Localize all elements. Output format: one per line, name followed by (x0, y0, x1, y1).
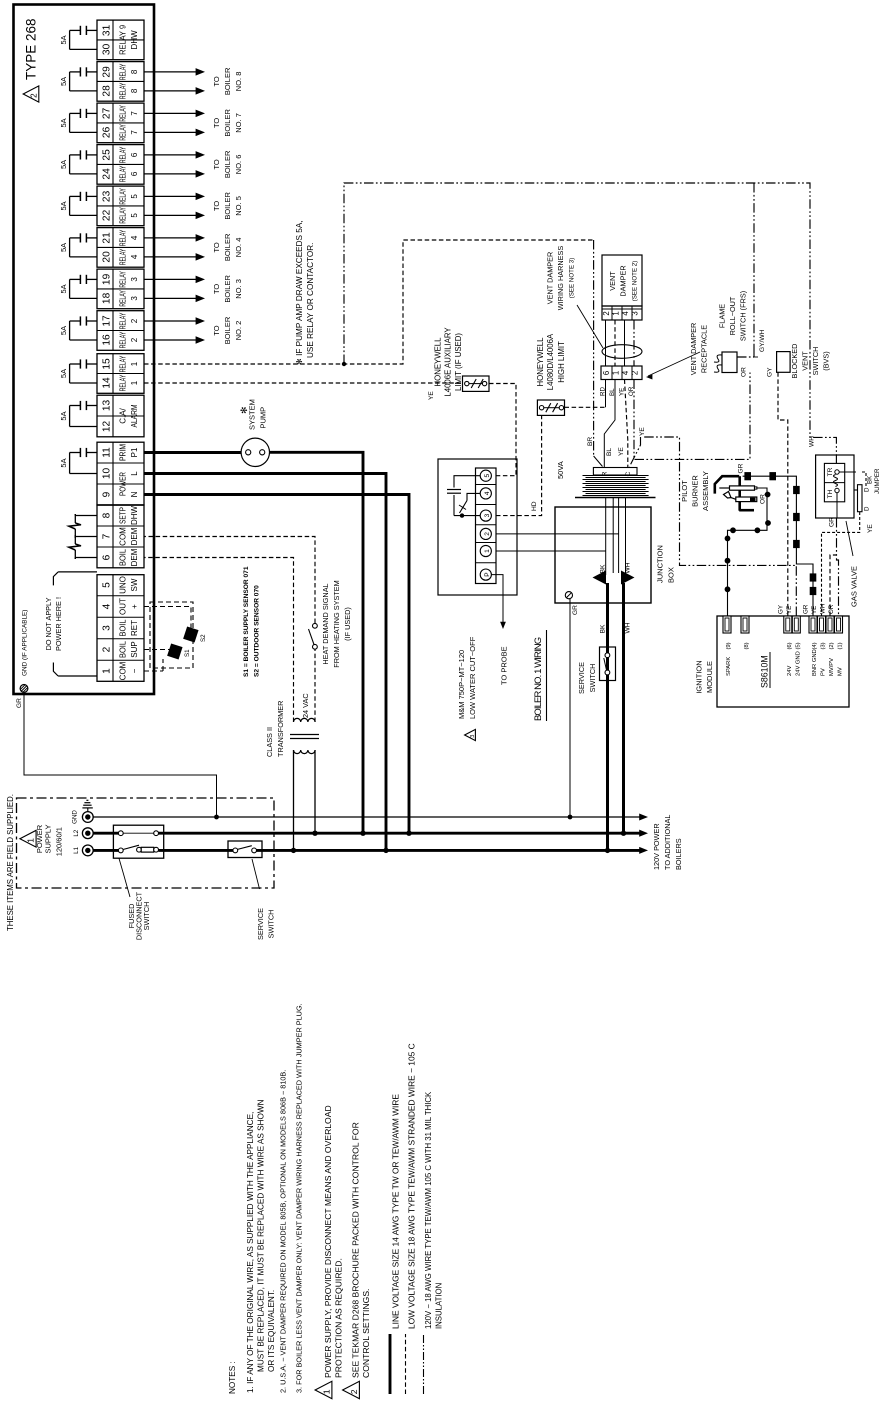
svg-text:GY: GY (767, 367, 774, 377)
svg-text:27: 27 (102, 107, 113, 119)
svg-text:RELAY: RELAY (118, 374, 128, 391)
wire dashed secondary to terminal 6 (144, 558, 294, 723)
svg-text:14: 14 (102, 377, 113, 389)
arrows 120V power to additional boilers (639, 813, 648, 820)
svg-text:R: R (602, 471, 609, 476)
wires BK WH channels from 50VA transformer (605, 498, 607, 576)
svg-text:L: L (130, 471, 139, 476)
svg-text:SUP: SUP (130, 641, 139, 657)
svg-text:TYPE 268: TYPE 268 (24, 18, 39, 80)
terminal strip (tekmar 268) (97, 575, 144, 682)
svg-text:12: 12 (102, 421, 113, 433)
svg-text:1: 1 (612, 371, 621, 375)
svg-text:OR ITS EQUIVALENT.: OR ITS EQUIVALENT. (267, 1290, 276, 1372)
wire OR from receptacle 2 to FRS (634, 373, 750, 460)
svg-text:BOILER: BOILER (223, 192, 232, 220)
svg-text:11: 11 (102, 447, 113, 458)
svg-text:YE: YE (867, 524, 874, 533)
igniter rod (719, 487, 729, 489)
svg-text:7: 7 (102, 533, 113, 539)
wire dashed BVS to ignition module GY (778, 372, 788, 616)
svg-text:(1): (1) (838, 642, 844, 649)
sensors S1 S2 dashed box (150, 602, 193, 668)
fuse 5A terminals 28/29 (87, 71, 97, 73)
svg-text:120/60/1: 120/60/1 (55, 827, 64, 856)
svg-text:RELAY: RELAY (118, 290, 128, 307)
svg-text:TRANSFORMER: TRANSFORMER (276, 701, 285, 757)
wire arrows to boiler no. 8 (144, 90, 197, 92)
heat demand switch (313, 623, 318, 628)
svg-text:28: 28 (102, 85, 113, 97)
svg-text:BLOCKED: BLOCKED (790, 344, 799, 379)
wire YE dashed from receptacle 4 into C (625, 380, 628, 468)
wire dashed relay 1 terminal 15 chain (144, 240, 594, 364)
svg-text:RELAY: RELAY (118, 63, 128, 80)
svg-text:RELAY 9: RELAY 9 (118, 25, 128, 55)
svg-text:(6): (6) (787, 642, 793, 649)
svg-text:(8): (8) (744, 642, 750, 649)
svg-text:18: 18 (102, 292, 113, 304)
svg-text:2: 2 (602, 311, 611, 315)
svg-text:20: 20 (102, 251, 113, 263)
svg-text:RET: RET (130, 620, 139, 636)
svg-text:SWITCH: SWITCH (588, 664, 597, 693)
svg-text:SWITCH: SWITCH (811, 347, 820, 376)
vent damper receptacle terminals 6 1 4 2 (601, 366, 642, 380)
wire FRS right to GY/WH riser (737, 356, 754, 358)
bent electrode (724, 492, 732, 499)
service switch at supply (228, 841, 262, 858)
svg-text:7: 7 (130, 111, 139, 116)
svg-text:BNR GND: BNR GND (812, 649, 818, 676)
svg-text:6: 6 (102, 554, 113, 560)
svg-text:YE: YE (786, 606, 793, 614)
svg-text:(2): (2) (829, 642, 835, 649)
svg-text:4: 4 (130, 254, 139, 259)
svg-text:24: 24 (102, 168, 113, 180)
wire arrows to boiler no. 7 (144, 131, 197, 133)
svg-text:OR: OR (760, 494, 767, 504)
svg-text:COM: COM (119, 527, 128, 546)
fuse 5A terminals 26/27 (87, 112, 97, 114)
svg-text:DHW: DHW (130, 30, 139, 50)
svg-text:5A: 5A (59, 369, 68, 378)
svg-text:3: 3 (130, 296, 139, 301)
wire arrows to boiler no. 5 (144, 214, 197, 216)
svg-text:WH: WH (625, 622, 632, 633)
svg-text:VENT: VENT (801, 351, 810, 371)
labels M&M 750P-MT-120 low water cut-off (465, 729, 476, 740)
wire dashed high limit to receptacle RD lane (565, 406, 606, 408)
svg-text:24 VAC: 24 VAC (301, 693, 310, 718)
svg-text:2: 2 (484, 532, 491, 536)
wire GR from junction box to gnd bus (569, 599, 571, 817)
svg-text:21: 21 (102, 232, 113, 244)
svg-text:(4): (4) (812, 642, 818, 649)
svg-text:GR: GR (572, 605, 579, 615)
svg-text:(9): (9) (726, 642, 732, 649)
wire arrows to boiler no. 3 (144, 297, 197, 299)
svg-text:S8610M: S8610M (760, 655, 770, 688)
svg-text:RELAY: RELAY (118, 188, 128, 205)
svg-text:YE: YE (811, 606, 818, 614)
svg-text:1: 1 (130, 380, 139, 385)
ignition module S8610M (717, 616, 849, 707)
svg-text:OUT: OUT (119, 598, 128, 615)
svg-text:MV/PV: MV/PV (829, 658, 835, 676)
svg-text:DO NOT APPLY: DO NOT APPLY (44, 597, 53, 650)
svg-text:PUMP: PUMP (259, 407, 268, 429)
svg-text:(IF USED): (IF USED) (343, 607, 352, 641)
svg-text:RELAY: RELAY (118, 229, 128, 246)
vent damper plug terminals 2 1 4 3 (602, 306, 642, 320)
svg-text:C: C (625, 471, 632, 476)
svg-text:BK: BK (600, 624, 607, 633)
svg-text:WH: WH (820, 604, 827, 614)
wire arrows to boiler no. 2 (144, 339, 197, 341)
svg-text:GND (IF APPLICABLE): GND (IF APPLICABLE) (22, 610, 29, 676)
fuse 5A terminals 18/19 (87, 278, 97, 280)
wire OR spark from module 9 to pilot rod with beads (728, 488, 768, 616)
svg-text:P: P (484, 572, 491, 577)
svg-text:26: 26 (102, 126, 113, 138)
svg-text:HONEYWELL: HONEYWELL (434, 337, 443, 387)
svg-text:FROM HEATING SYSTEM: FROM HEATING SYSTEM (332, 580, 341, 667)
fused disconnect switch (113, 825, 163, 858)
svg-text:UNO: UNO (119, 576, 128, 594)
legend line voltage wire (389, 1334, 392, 1394)
wire N from terminal 9 to L2 bus (144, 495, 409, 834)
legend low voltage wire (405, 1334, 407, 1394)
svg-text:25: 25 (102, 149, 113, 161)
svg-text:VENT DAMPER: VENT DAMPER (546, 252, 555, 305)
svg-text:WH: WH (809, 436, 816, 447)
svg-text:BOILER: BOILER (223, 316, 232, 344)
svg-text:BOIL: BOIL (119, 640, 128, 658)
svg-text:BOIL: BOIL (119, 548, 128, 566)
svg-text:5A: 5A (59, 77, 68, 86)
svg-text:TO: TO (212, 201, 221, 211)
svg-text:RELAY: RELAY (118, 331, 128, 348)
svg-text:NO. 8: NO. 8 (234, 72, 243, 92)
svg-text:16: 16 (102, 334, 113, 346)
wire RD from receptacle 6 to high limit junction (605, 380, 607, 408)
svg-text:USE RELAY OR CONTACTOR.: USE RELAY OR CONTACTOR. (306, 243, 315, 358)
svg-text:WIRING HARNESS: WIRING HARNESS (556, 246, 565, 311)
svg-text:5: 5 (484, 474, 491, 478)
label TYPE 268 with warning triangle 2 (23, 86, 39, 102)
field wire arrow BK (593, 571, 607, 585)
svg-text:TO: TO (212, 242, 221, 252)
sensor rod with black tip (736, 497, 757, 502)
wire P1 from pump to neutral bus (270, 452, 364, 833)
svg-text:8: 8 (130, 69, 139, 74)
svg-text:PILOT: PILOT (680, 480, 689, 502)
fuse 5A terminals 20/21 (87, 237, 97, 239)
svg-text:NO. 6: NO. 6 (234, 155, 243, 175)
svg-text:M&M 750P−MT−120: M&M 750P−MT−120 (457, 650, 466, 719)
svg-text:31: 31 (102, 24, 113, 36)
svg-text:LIMIT (IF USED): LIMIT (IF USED) (454, 333, 463, 391)
svg-text:SERVICE: SERVICE (256, 908, 265, 940)
svg-text:BL: BL (606, 448, 613, 456)
svg-text:DEM: DEM (130, 548, 139, 566)
class II transformer 24 VAC (294, 718, 316, 722)
svg-text:BOILER: BOILER (223, 67, 232, 95)
svg-text:HONEYWELL: HONEYWELL (536, 337, 545, 387)
svg-text:GY/WH: GY/WH (759, 329, 766, 352)
jumper D1 BK (839, 471, 856, 473)
svg-text:GND: GND (72, 810, 79, 824)
system pump on P1 line (144, 451, 241, 454)
svg-text:120V − 18 AWG WIRE TYPE TEW/AW: 120V − 18 AWG WIRE TYPE TEW/AWM 105 C WI… (424, 1091, 433, 1329)
svg-text:1. IF ANY OF THE ORIGINAL WIR: 1. IF ANY OF THE ORIGINAL WIRE, AS SUPPL… (246, 1112, 255, 1393)
ground symbol in junction box (565, 592, 572, 599)
svg-text:15: 15 (102, 358, 113, 370)
svg-text:SW: SW (130, 578, 139, 591)
svg-text:PV: PV (821, 668, 827, 676)
wires cutoff 1 and 2 to junction box (496, 550, 606, 552)
svg-text:NO. 2: NO. 2 (234, 321, 243, 341)
svg-text:RELAY: RELAY (118, 248, 128, 265)
svg-text:RELAY: RELAY (118, 271, 128, 288)
svg-text:17: 17 (102, 315, 113, 327)
svg-text:OR: OR (741, 367, 748, 377)
svg-text:BOILER: BOILER (223, 233, 232, 261)
internal wiring of cutoff (454, 476, 480, 488)
svg-text:TO: TO (212, 159, 221, 169)
svg-text:SUPPLY: SUPPLY (44, 824, 53, 853)
wire BL from receptacle 1 into R (604, 380, 615, 468)
wire dashed from terminal 4 to S2 (144, 607, 191, 630)
sensor S2 outdoor sensor (183, 626, 198, 642)
svg-text:5A: 5A (59, 35, 68, 44)
svg-text:5A: 5A (59, 326, 68, 335)
svg-text:(SEE NOTE 2): (SEE NOTE 2) (632, 261, 639, 302)
svg-text:LINE VOLTAGE SIZE 14 AWG TYPE: LINE VOLTAGE SIZE 14 AWG TYPE TW OR TEW/… (391, 1094, 401, 1329)
svg-text:3: 3 (631, 311, 640, 315)
svg-text:LOW VOLTAGE SIZE 18 AWG TYPE T: LOW VOLTAGE SIZE 18 AWG TYPE TEW/AWM STR… (407, 1043, 417, 1329)
svg-text:VENT: VENT (608, 271, 617, 291)
wire dashed from terminal 1 (144, 670, 163, 672)
wire arrows to boiler no. 4 (144, 256, 197, 258)
GND (IF APPLICABLE) terminal (20, 685, 28, 693)
wire dashed HD from low water cutoff 3 to high limit (496, 415, 542, 515)
svg-text:FLAME: FLAME (718, 304, 727, 328)
svg-text:GR: GR (803, 604, 810, 614)
svg-text:THESE ITEMS ARE FIELD SUPPLIED: THESE ITEMS ARE FIELD SUPPLIED. (6, 794, 15, 931)
svg-text:S1 = BOILER SUPPLY SENSOR 071: S1 = BOILER SUPPLY SENSOR 071 (243, 566, 250, 677)
supply terminal L1 (82, 845, 93, 856)
svg-text:1: 1 (484, 549, 491, 553)
bus GND thin lane (93, 816, 641, 818)
svg-text:19: 19 (102, 273, 113, 285)
fuse 5A terminals 14/15 (87, 363, 97, 365)
svg-text:VENT DAMPER: VENT DAMPER (689, 323, 698, 376)
field wire arrow WH (621, 571, 635, 585)
junction box (555, 507, 651, 603)
svg-text:TO: TO (212, 325, 221, 335)
gas valve (816, 455, 854, 518)
fuse 5A terminals 12/13 (87, 405, 97, 407)
svg-text:3: 3 (484, 513, 491, 517)
svg-text:RELAY: RELAY (118, 124, 128, 141)
wire YE jumper to ignition module terminal 3 (822, 512, 860, 616)
svg-text:JUMPER: JUMPER (874, 468, 880, 494)
flame roll-out switch FRS (722, 352, 737, 373)
supply terminal L2 (82, 828, 93, 839)
svg-text:30: 30 (102, 43, 113, 55)
wire GR pilot burner ground with square beads (743, 476, 813, 616)
bracket DO NOT APPLY POWER HERE over terminals 1-5 (58, 571, 97, 573)
note warning 2 tekmar brochure (343, 1381, 360, 1398)
svg-text:POWER SUPPLY, PROVIDE DISCONNE: POWER SUPPLY, PROVIDE DISCONNECT MEANS A… (323, 1105, 333, 1378)
svg-text:JUNCTION: JUNCTION (656, 545, 665, 583)
svg-text:120V POWER: 120V POWER (652, 823, 661, 870)
wire dashed relay 1 terminal 14 to aux limit, YE (144, 382, 461, 384)
svg-text:POWER: POWER (119, 472, 128, 496)
svg-text:DEM: DEM (130, 527, 139, 545)
Honeywell L4080D/L4006A high limit (537, 400, 564, 415)
svg-text:✻ IF PUMP AMP DRAW EXCEEDS 5A,: ✻ IF PUMP AMP DRAW EXCEEDS 5A, (295, 220, 304, 365)
svg-text:6: 6 (130, 152, 139, 157)
svg-text:BOX: BOX (667, 567, 676, 583)
svg-text:D: D (864, 506, 871, 511)
wire L from terminal 10 to L1 bus (144, 474, 386, 851)
svg-text:YE: YE (618, 447, 625, 456)
svg-text:GR: GR (829, 517, 836, 527)
svg-text:HEAT DEMAND SIGNAL: HEAT DEMAND SIGNAL (321, 583, 330, 664)
svg-text:3: 3 (130, 277, 139, 282)
svg-text:S1: S1 (184, 649, 191, 657)
fuse 5A terminals 24/25 (87, 154, 97, 156)
svg-text:RELAY: RELAY (118, 105, 128, 122)
svg-text:PRIM: PRIM (119, 444, 128, 461)
legend 120V 18 awg wire (423, 1334, 425, 1394)
svg-text:2: 2 (102, 646, 113, 652)
svg-text:RELAY: RELAY (118, 207, 128, 224)
harness wires through ellipse (605, 320, 607, 366)
svg-text:2: 2 (631, 371, 640, 375)
wire second YE diagonal into C from long YE run (630, 437, 641, 467)
wire GY/WH drop from rail to FRS (753, 183, 755, 352)
svg-text:S2: S2 (200, 634, 207, 642)
svg-text:LOW WATER CUT−OFF: LOW WATER CUT−OFF (468, 636, 477, 719)
svg-text:SWITCH: SWITCH (142, 902, 151, 931)
svg-text:9: 9 (102, 491, 113, 497)
svg-text:(5): (5) (795, 642, 801, 649)
svg-text:DAMPER: DAMPER (619, 265, 628, 296)
svg-text:IGNITION: IGNITION (695, 660, 704, 693)
svg-text:2: 2 (130, 337, 139, 342)
svg-text:GY: GY (777, 605, 784, 614)
svg-text:BK: BK (867, 475, 874, 484)
svg-text:2: 2 (130, 318, 139, 323)
svg-text:TO PROBE: TO PROBE (500, 646, 509, 685)
svg-text:4: 4 (130, 235, 139, 240)
svg-text:COM: COM (119, 661, 128, 680)
pilot bracket (715, 476, 739, 493)
svg-text:24V GND: 24V GND (795, 651, 801, 676)
svg-text:SWITCH: SWITCH (267, 910, 276, 939)
svg-text:DHW: DHW (130, 506, 139, 526)
svg-text:SWITCH (FRS): SWITCH (FRS) (739, 291, 748, 341)
wire dashed from terminal 2 to S1 (144, 649, 170, 651)
svg-text:CONTROL SETTINGS.: CONTROL SETTINGS. (361, 1289, 371, 1378)
svg-text:1: 1 (130, 361, 139, 366)
svg-text:NO. 3: NO. 3 (234, 279, 243, 299)
wire dashed aux limit to low water cutoff term 5 (489, 384, 516, 476)
label GY/WH (754, 356, 758, 358)
svg-text:2. U.S.A. − VENT DAMPER REQUI: 2. U.S.A. − VENT DAMPER REQUIRED ON MODE… (279, 1070, 288, 1393)
svg-text:SERVICE: SERVICE (577, 662, 586, 694)
svg-text:NO. 4: NO. 4 (234, 238, 243, 258)
svg-text:(3): (3) (821, 642, 827, 649)
svg-text:SEE TEKMAR D268 BROCHURE PACKE: SEE TEKMAR D268 BROCHURE PACKED WITH CON… (351, 1122, 361, 1378)
svg-text:NO. 5: NO. 5 (234, 196, 243, 216)
svg-text:5A: 5A (59, 243, 68, 252)
svg-text:BOIL: BOIL (119, 619, 128, 637)
vent damper box see note 2 (602, 255, 642, 306)
svg-text:NO. 7: NO. 7 (234, 113, 243, 133)
service switch boiler 1 (600, 647, 616, 681)
svg-text:6: 6 (602, 371, 611, 375)
earth ground symbol at supply (87, 808, 89, 812)
bus L1 hot lane (93, 849, 118, 852)
wire WH to module terminal 2 (830, 555, 837, 616)
control box outline TYPE 268 (14, 5, 155, 695)
svg-text:5: 5 (102, 582, 113, 588)
wire dashed secondary to terminal 7 via heat demand switch (314, 649, 316, 722)
svg-text:(SEE NOTE 3): (SEE NOTE 3) (569, 258, 576, 299)
svg-text:BOILER: BOILER (223, 109, 232, 137)
svg-text:+: + (130, 604, 139, 609)
svg-text:HIGH LIMIT: HIGH LIMIT (557, 341, 566, 383)
wire to probe (491, 575, 503, 622)
svg-text:ALARM: ALARM (130, 404, 139, 427)
svg-text:13: 13 (102, 400, 113, 412)
svg-text:BOILER: BOILER (223, 275, 232, 303)
svg-text:23: 23 (102, 190, 113, 202)
svg-text:RELAY: RELAY (118, 165, 128, 182)
wire arrows to boiler no. 6 (144, 173, 197, 175)
svg-text:S2 = OUTDOOR SENSOR 070: S2 = OUTDOOR SENSOR 070 (254, 585, 261, 677)
svg-text:2: 2 (29, 93, 38, 98)
note warning 1 power supply (315, 1381, 332, 1398)
svg-text:L4080D/L4006A: L4080D/L4006A (546, 333, 555, 390)
svg-text:TO: TO (212, 284, 221, 294)
svg-text:(BVS): (BVS) (822, 351, 831, 370)
svg-text:RELAY: RELAY (118, 146, 128, 163)
svg-text:3: 3 (102, 625, 113, 631)
blocked vent switch BVS (777, 352, 791, 373)
svg-text:50VA: 50VA (556, 461, 565, 479)
svg-text:TO: TO (212, 118, 221, 128)
M&M 750P-MT-120 low water cut-off (438, 459, 517, 595)
svg-text:ROLL−OUT: ROLL−OUT (728, 296, 737, 335)
svg-text:HD: HD (531, 501, 538, 511)
svg-text:3: 3 (470, 735, 476, 738)
svg-text:CLASS II: CLASS II (265, 727, 274, 757)
svg-text:C.A/: C.A/ (119, 407, 128, 423)
svg-text:1: 1 (612, 311, 621, 315)
svg-text:3. FOR BOILER LESS VENT DAMPE: 3. FOR BOILER LESS VENT DAMPER ONLY: VEN… (295, 1003, 304, 1393)
svg-text:BR: BR (587, 437, 594, 446)
svg-text:5A: 5A (59, 118, 68, 127)
svg-text:P1: P1 (130, 447, 139, 457)
svg-text:BOILER NO. 1 WIRING: BOILER NO. 1 WIRING (533, 637, 544, 721)
svg-text:10: 10 (102, 468, 113, 480)
